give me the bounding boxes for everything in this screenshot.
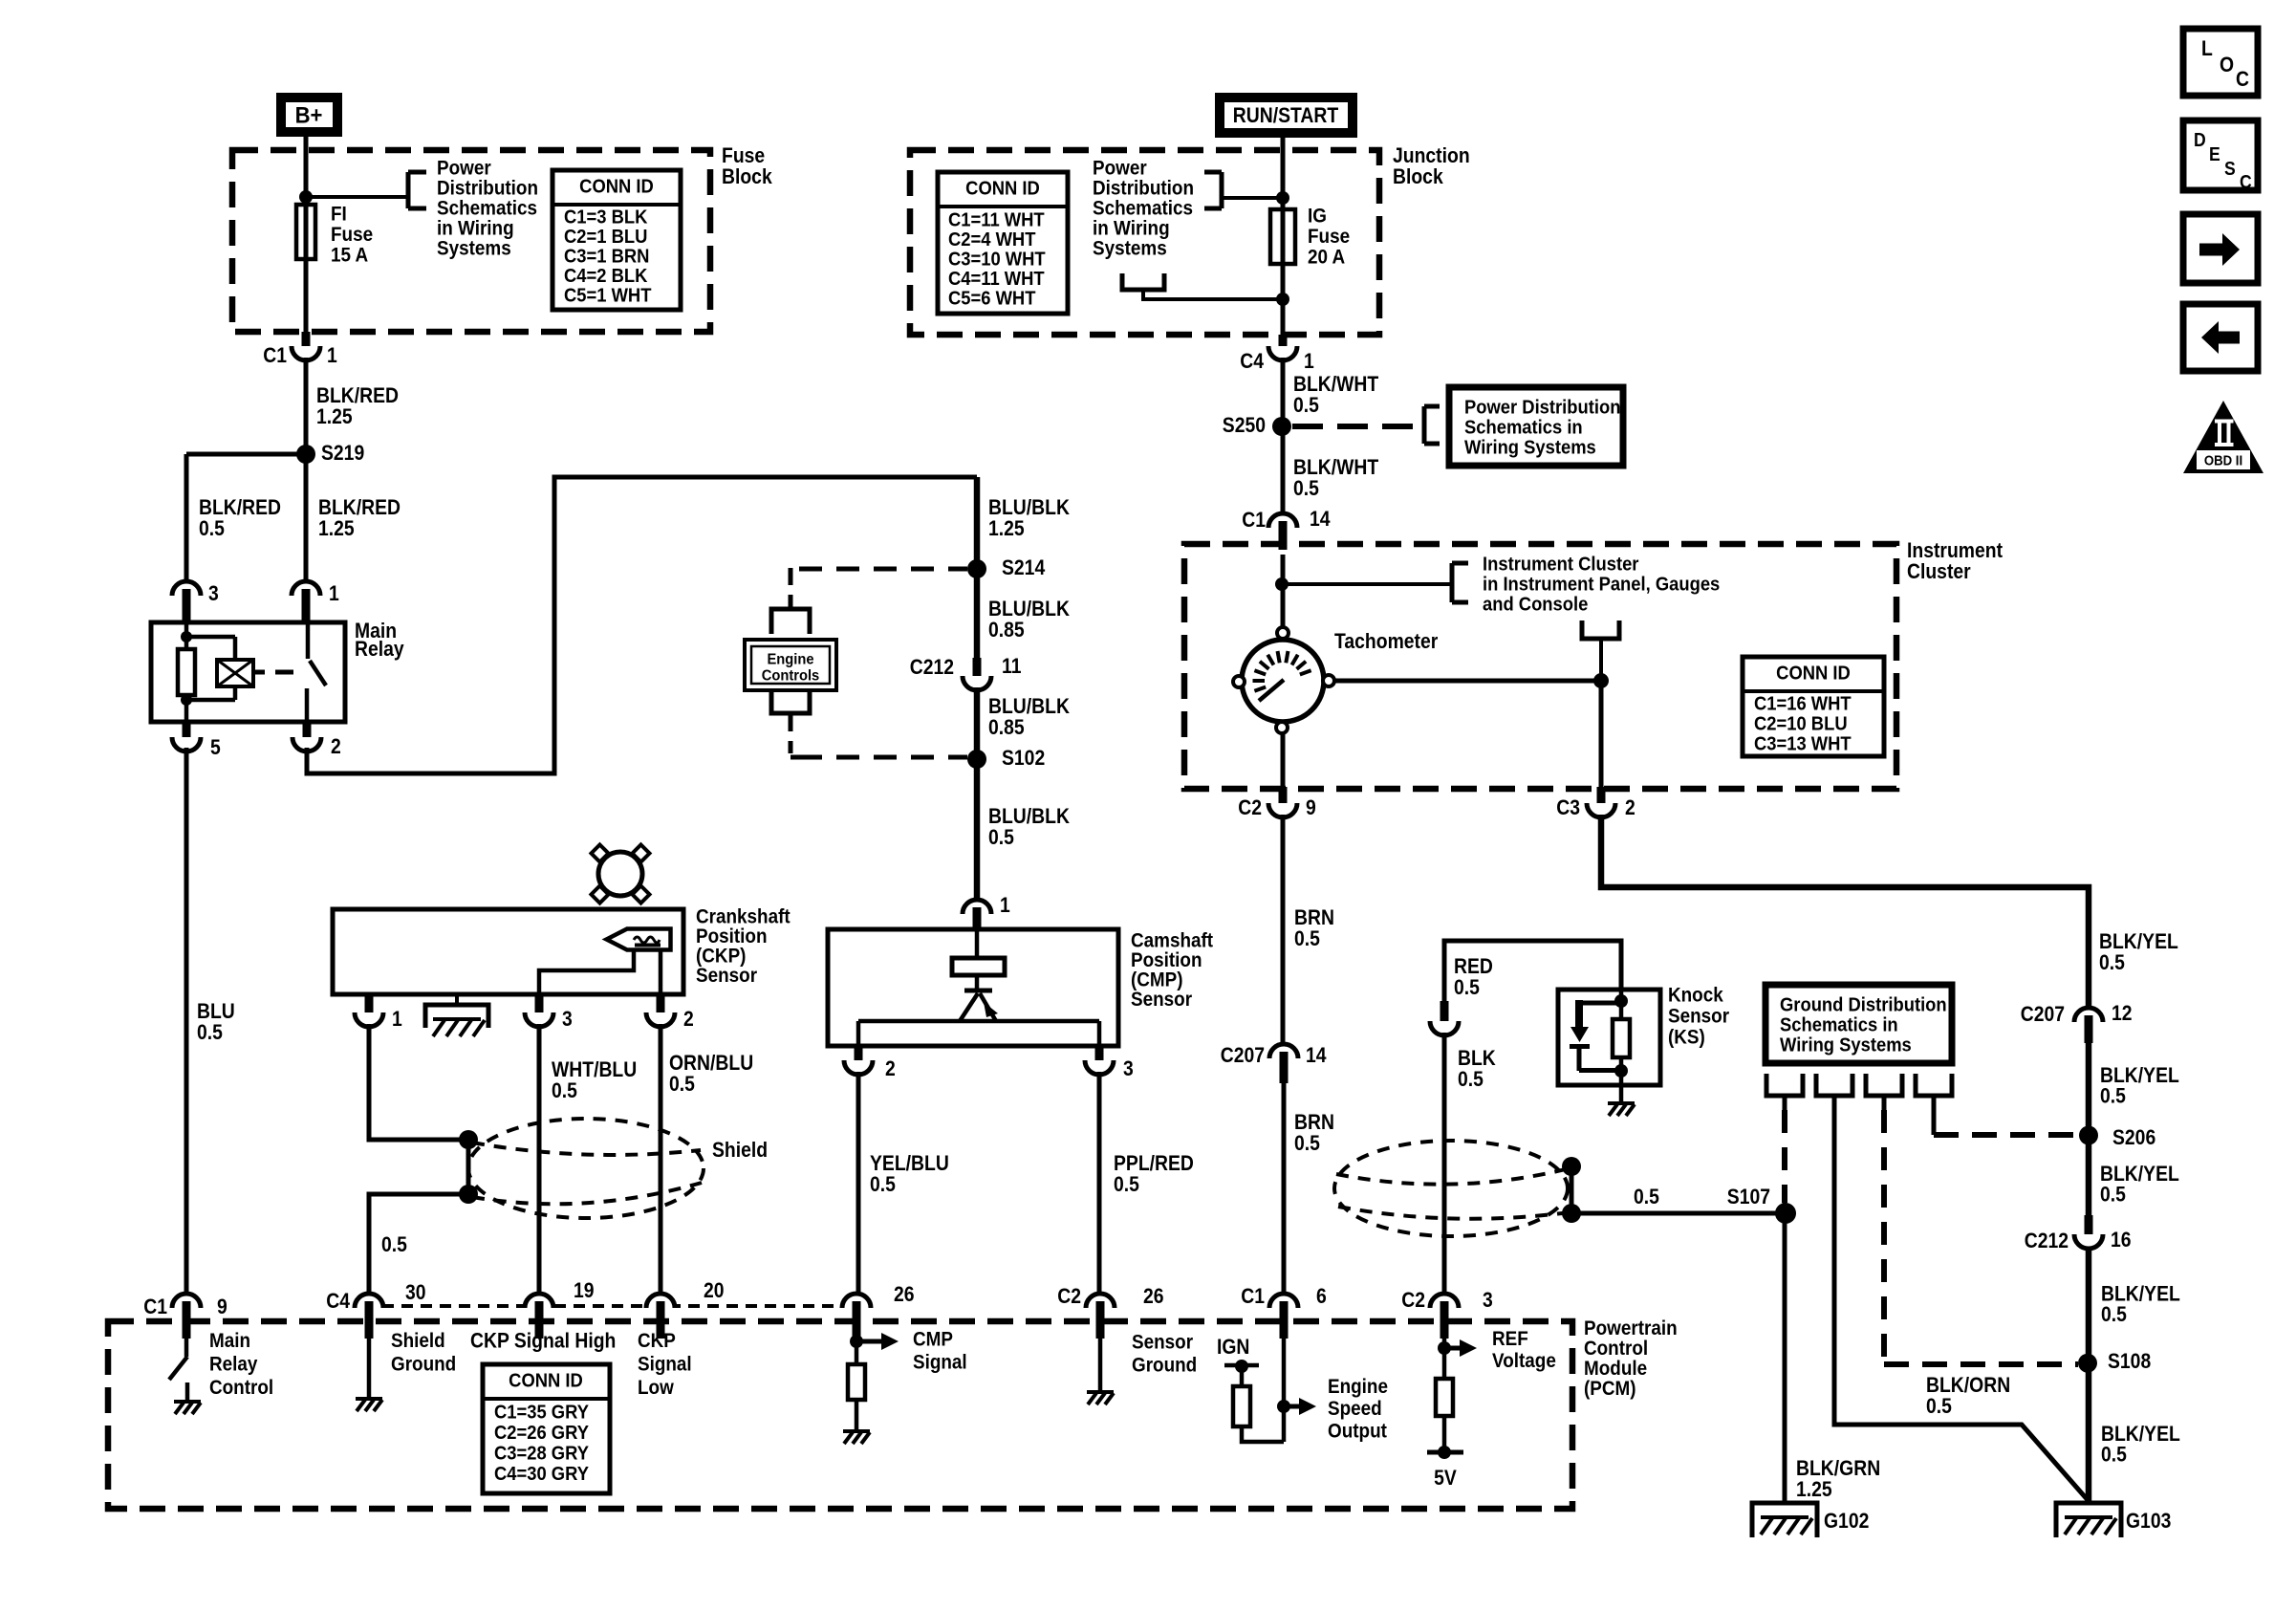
svg-text:20: 20 (704, 1279, 725, 1302)
svg-text:1: 1 (329, 582, 339, 605)
svg-text:IGN: IGN (1217, 1336, 1249, 1359)
svg-text:1.25: 1.25 (1796, 1478, 1832, 1501)
svg-text:(PCM): (PCM) (1584, 1378, 1636, 1400)
svg-text:3: 3 (208, 582, 219, 605)
svg-text:Speed: Speed (1328, 1398, 1382, 1420)
svg-text:Schematics: Schematics (437, 197, 537, 219)
svg-text:OBD II: OBD II (2204, 452, 2242, 468)
svg-text:Engine: Engine (1328, 1376, 1388, 1398)
svg-text:BRN: BRN (1294, 1111, 1334, 1134)
svg-text:CONN ID: CONN ID (965, 179, 1040, 200)
svg-text:3: 3 (1123, 1057, 1134, 1080)
svg-text:C4=2 BLK: C4=2 BLK (564, 266, 647, 287)
svg-text:0.5: 0.5 (1114, 1173, 1139, 1196)
svg-text:Junction: Junction (1393, 144, 1470, 167)
svg-text:WHT/BLU: WHT/BLU (552, 1058, 637, 1081)
svg-text:14: 14 (1306, 1044, 1327, 1067)
svg-text:O: O (2220, 54, 2234, 76)
svg-text:C4: C4 (1240, 350, 1264, 373)
svg-text:C212: C212 (910, 656, 954, 679)
svg-text:BLU: BLU (197, 1000, 235, 1023)
svg-text:Sensor: Sensor (1668, 1005, 1729, 1027)
svg-text:C1: C1 (1242, 509, 1266, 532)
svg-text:0.5: 0.5 (669, 1073, 695, 1096)
svg-text:0.5: 0.5 (988, 826, 1014, 849)
svg-text:Wiring Systems: Wiring Systems (1464, 438, 1596, 459)
svg-text:Tachometer: Tachometer (1334, 630, 1438, 653)
svg-text:0.5: 0.5 (2101, 1303, 2127, 1326)
svg-text:0.5: 0.5 (1458, 1068, 1484, 1091)
svg-text:Relay: Relay (355, 638, 404, 661)
svg-text:20 A: 20 A (1308, 246, 1345, 268)
svg-text:16: 16 (2111, 1229, 2132, 1252)
svg-text:ORN/BLU: ORN/BLU (669, 1052, 753, 1075)
svg-text:BLK/ORN: BLK/ORN (1926, 1374, 2010, 1397)
svg-text:0.5: 0.5 (2100, 1183, 2126, 1206)
svg-text:Knock: Knock (1668, 984, 1724, 1006)
svg-text:3: 3 (562, 1008, 573, 1031)
svg-text:0.5: 0.5 (870, 1173, 896, 1196)
svg-text:1.25: 1.25 (988, 517, 1025, 540)
svg-text:RUN/START: RUN/START (1233, 104, 1339, 127)
svg-text:BLK/GRN: BLK/GRN (1796, 1457, 1880, 1480)
svg-text:G102: G102 (1824, 1510, 1869, 1533)
svg-text:Schematics in: Schematics in (1464, 418, 1583, 439)
svg-text:26: 26 (1143, 1285, 1164, 1308)
svg-text:Systems: Systems (1093, 237, 1167, 259)
svg-text:Fuse: Fuse (331, 224, 373, 246)
svg-text:0.85: 0.85 (988, 619, 1025, 642)
svg-text:CKP Signal High: CKP Signal High (470, 1329, 616, 1352)
svg-text:Block: Block (1393, 165, 1443, 188)
svg-text:Sensor: Sensor (1131, 989, 1192, 1011)
svg-text:C207: C207 (2021, 1003, 2065, 1026)
svg-text:Power Distribution: Power Distribution (1464, 398, 1620, 419)
svg-text:C1=16 WHT: C1=16 WHT (1754, 694, 1852, 715)
svg-text:C5=1 WHT: C5=1 WHT (564, 286, 652, 307)
svg-text:Power: Power (437, 157, 491, 179)
svg-text:3: 3 (1483, 1289, 1493, 1312)
svg-text:5: 5 (210, 736, 221, 759)
svg-text:2: 2 (683, 1008, 694, 1031)
svg-text:Sensor: Sensor (1132, 1331, 1193, 1353)
svg-text:1.25: 1.25 (318, 517, 355, 540)
svg-text:Control: Control (209, 1377, 273, 1399)
svg-text:1: 1 (1000, 894, 1010, 917)
svg-text:BLU/BLK: BLU/BLK (988, 805, 1070, 828)
svg-text:C207: C207 (1221, 1044, 1265, 1067)
svg-text:G103: G103 (2126, 1510, 2171, 1533)
svg-text:C2=1 BLU: C2=1 BLU (564, 227, 647, 248)
svg-text:Cluster: Cluster (1907, 560, 1971, 583)
svg-text:0.85: 0.85 (988, 716, 1025, 739)
svg-text:(KS): (KS) (1668, 1026, 1705, 1048)
svg-text:Ground: Ground (391, 1354, 456, 1376)
svg-text:E: E (2209, 143, 2220, 164)
svg-text:Block: Block (722, 165, 772, 188)
svg-text:S206: S206 (2112, 1126, 2155, 1149)
svg-text:9: 9 (1306, 796, 1316, 819)
svg-text:0.5: 0.5 (1454, 976, 1480, 999)
svg-text:C2=4 WHT: C2=4 WHT (948, 229, 1036, 250)
svg-text:Output: Output (1328, 1421, 1387, 1443)
svg-text:S107: S107 (1727, 1186, 1770, 1208)
svg-text:C1: C1 (263, 344, 287, 367)
svg-text:YEL/BLU: YEL/BLU (870, 1152, 949, 1175)
svg-text:BLU/BLK: BLU/BLK (988, 695, 1070, 718)
svg-text:BLK/RED: BLK/RED (199, 496, 281, 519)
svg-text:Ground Distribution: Ground Distribution (1780, 995, 1947, 1016)
svg-text:C: C (2240, 171, 2252, 192)
svg-text:Schematics: Schematics (1093, 197, 1193, 219)
svg-text:11: 11 (1002, 655, 1021, 678)
svg-text:C2=10 BLU: C2=10 BLU (1754, 714, 1848, 735)
svg-text:Signal: Signal (638, 1354, 692, 1376)
svg-text:BLK/WHT: BLK/WHT (1293, 373, 1379, 396)
svg-text:in Wiring: in Wiring (1093, 217, 1170, 239)
svg-text:0.5: 0.5 (1293, 394, 1319, 417)
svg-text:5V: 5V (1434, 1467, 1457, 1490)
svg-text:Wiring Systems: Wiring Systems (1780, 1035, 1912, 1056)
svg-text:C3: C3 (1556, 796, 1580, 819)
svg-text:Schematics in: Schematics in (1780, 1015, 1898, 1036)
svg-text:BLK/WHT: BLK/WHT (1293, 456, 1379, 479)
svg-text:C3=1 BRN: C3=1 BRN (564, 247, 649, 268)
svg-text:C3=28 GRY: C3=28 GRY (494, 1444, 589, 1465)
svg-text:0.5: 0.5 (2101, 1443, 2127, 1466)
svg-text:C2: C2 (1401, 1289, 1425, 1312)
svg-text:C4: C4 (326, 1290, 350, 1313)
svg-text:Shield: Shield (391, 1330, 445, 1352)
svg-text:BLK/YEL: BLK/YEL (2099, 930, 2178, 953)
svg-text:Control: Control (1584, 1338, 1648, 1360)
svg-text:CKP: CKP (638, 1330, 676, 1352)
svg-text:S250: S250 (1223, 414, 1266, 437)
svg-text:9: 9 (217, 1295, 227, 1318)
svg-text:S: S (2224, 158, 2236, 179)
svg-text:C5=6 WHT: C5=6 WHT (948, 289, 1036, 310)
svg-text:C: C (2236, 68, 2249, 91)
svg-text:2: 2 (331, 735, 341, 758)
svg-text:C2: C2 (1057, 1285, 1081, 1308)
svg-text:Fuse: Fuse (1308, 226, 1350, 248)
svg-text:C4=11 WHT: C4=11 WHT (948, 269, 1045, 290)
svg-text:in Instrument Panel, Gauges: in Instrument Panel, Gauges (1483, 575, 1720, 596)
svg-text:0.5: 0.5 (1634, 1186, 1659, 1208)
svg-text:0.5: 0.5 (381, 1233, 407, 1256)
svg-text:RED: RED (1454, 955, 1493, 978)
svg-text:Power: Power (1093, 157, 1147, 179)
svg-text:2: 2 (1625, 796, 1635, 819)
svg-text:Low: Low (638, 1377, 674, 1399)
svg-text:S219: S219 (321, 442, 364, 465)
svg-text:Controls: Controls (762, 667, 819, 685)
svg-text:BLK/RED: BLK/RED (318, 496, 401, 519)
svg-text:Module: Module (1584, 1358, 1647, 1380)
svg-text:Instrument: Instrument (1907, 539, 2003, 562)
svg-text:26: 26 (894, 1283, 915, 1306)
svg-text:0.5: 0.5 (1293, 477, 1319, 500)
svg-text:CMP: CMP (913, 1328, 953, 1350)
svg-text:C1: C1 (143, 1295, 167, 1318)
svg-text:C1=3 BLK: C1=3 BLK (564, 207, 647, 229)
svg-text:15 A: 15 A (331, 244, 368, 266)
svg-text:1: 1 (1304, 350, 1314, 373)
svg-text:CONN ID: CONN ID (1776, 664, 1851, 685)
svg-text:S102: S102 (1002, 747, 1045, 770)
svg-text:C3=13 WHT: C3=13 WHT (1754, 734, 1852, 755)
svg-text:CONN ID: CONN ID (509, 1371, 583, 1392)
svg-text:Ground: Ground (1132, 1354, 1197, 1376)
svg-text:6: 6 (1316, 1285, 1327, 1308)
svg-text:30: 30 (405, 1281, 426, 1304)
svg-text:REF: REF (1492, 1328, 1528, 1350)
svg-text:Distribution: Distribution (437, 177, 538, 199)
svg-text:Engine: Engine (767, 651, 813, 668)
svg-text:2: 2 (885, 1057, 896, 1080)
svg-text:D: D (2194, 129, 2206, 150)
svg-text:0.5: 0.5 (199, 517, 225, 540)
svg-text:L: L (2201, 37, 2213, 60)
svg-text:Distribution: Distribution (1093, 177, 1194, 199)
svg-text:Signal: Signal (913, 1351, 967, 1373)
svg-text:0.5: 0.5 (1294, 1132, 1320, 1155)
svg-text:Systems: Systems (437, 237, 511, 259)
svg-text:CONN ID: CONN ID (579, 177, 654, 198)
svg-text:C4=30 GRY: C4=30 GRY (494, 1465, 589, 1486)
svg-text:C2=26 GRY: C2=26 GRY (494, 1424, 589, 1445)
svg-text:PPL/RED: PPL/RED (1114, 1152, 1194, 1175)
svg-text:19: 19 (574, 1279, 595, 1302)
svg-text:BLU/BLK: BLU/BLK (988, 598, 1070, 620)
svg-text:Sensor: Sensor (696, 965, 757, 987)
svg-text:14: 14 (1310, 508, 1331, 531)
svg-text:C3=10 WHT: C3=10 WHT (948, 250, 1046, 271)
svg-text:0.5: 0.5 (1926, 1395, 1952, 1418)
svg-text:1: 1 (392, 1008, 402, 1031)
svg-text:1.25: 1.25 (316, 405, 353, 428)
svg-text:C1=11 WHT: C1=11 WHT (948, 210, 1045, 231)
svg-text:0.5: 0.5 (197, 1021, 223, 1044)
svg-text:C1=35 GRY: C1=35 GRY (494, 1403, 589, 1424)
svg-text:1: 1 (327, 344, 337, 367)
svg-text:Fuse: Fuse (722, 144, 765, 167)
svg-text:BRN: BRN (1294, 906, 1334, 929)
svg-text:C1: C1 (1241, 1285, 1265, 1308)
svg-text:Shield: Shield (712, 1139, 768, 1162)
svg-text:0.5: 0.5 (1294, 927, 1320, 950)
svg-text:Instrument Cluster: Instrument Cluster (1483, 555, 1639, 576)
svg-text:Relay: Relay (209, 1354, 257, 1376)
svg-text:in Wiring: in Wiring (437, 217, 514, 239)
svg-text:C2: C2 (1238, 796, 1262, 819)
svg-text:B+: B+ (295, 101, 323, 127)
svg-text:FI: FI (331, 203, 347, 225)
svg-text:BLU/BLK: BLU/BLK (988, 496, 1070, 519)
svg-text:BLK/RED: BLK/RED (316, 384, 399, 407)
svg-text:0.5: 0.5 (2100, 1084, 2126, 1107)
svg-text:12: 12 (2112, 1002, 2133, 1025)
svg-text:0.5: 0.5 (2099, 951, 2125, 974)
svg-text:S108: S108 (2108, 1350, 2151, 1373)
svg-text:S214: S214 (1002, 556, 1046, 579)
svg-text:0.5: 0.5 (552, 1079, 577, 1102)
svg-text:Powertrain: Powertrain (1584, 1317, 1678, 1339)
svg-text:and Console: and Console (1483, 595, 1589, 616)
svg-text:IG: IG (1308, 205, 1327, 227)
svg-text:Voltage: Voltage (1492, 1350, 1556, 1372)
svg-text:BLK: BLK (1458, 1047, 1496, 1070)
svg-text:C212: C212 (2025, 1230, 2069, 1252)
svg-text:Main: Main (209, 1330, 250, 1352)
